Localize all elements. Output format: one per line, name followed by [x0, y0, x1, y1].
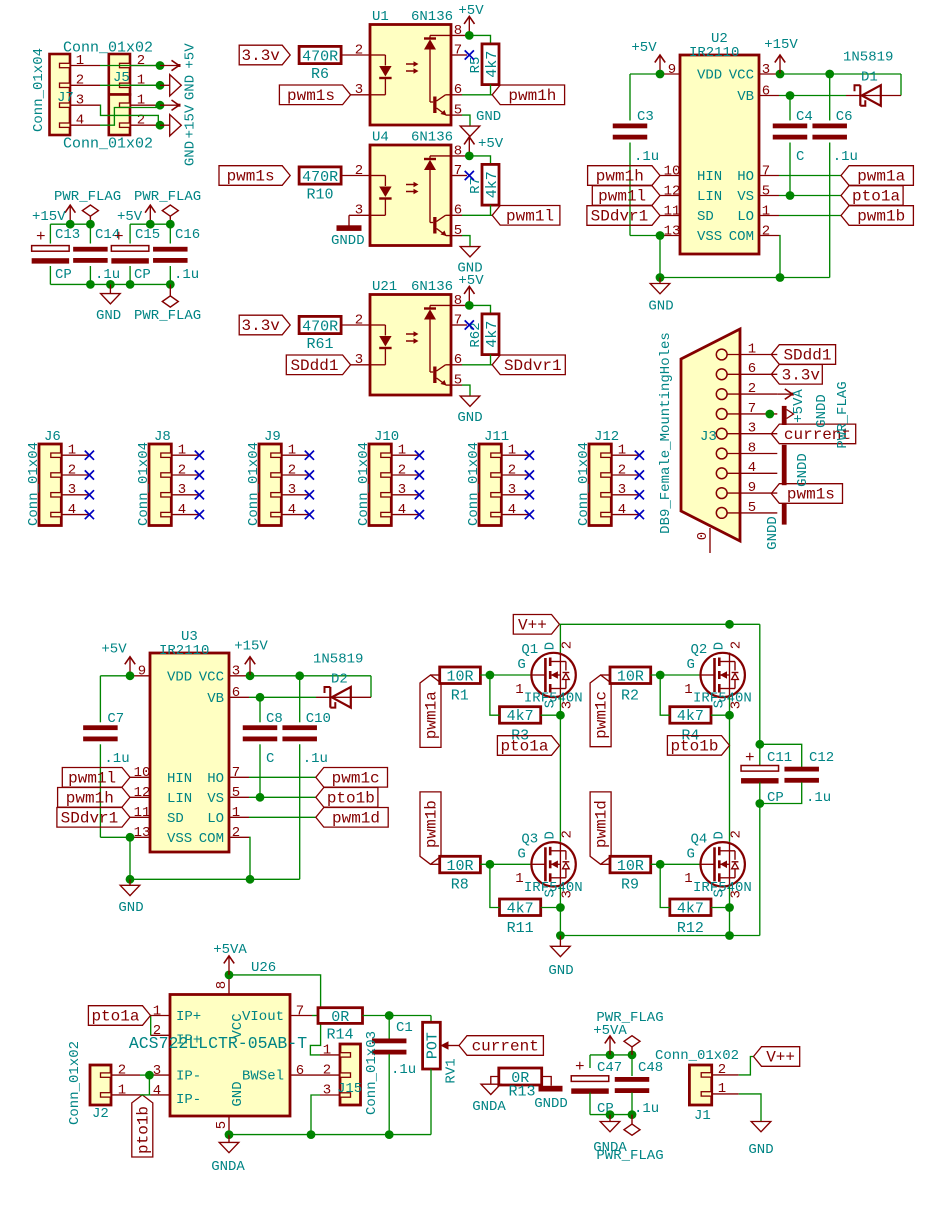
svg-text:V++: V++ — [766, 1049, 795, 1067]
wire tie pins 3-4 — [148, 1075, 150, 1095]
resistor R9 10R gate — [610, 856, 651, 873]
svg-text:7: 7 — [296, 1003, 304, 1019]
svg-text:J8: J8 — [154, 429, 171, 445]
svg-text:SDdvr1: SDdvr1 — [504, 357, 562, 375]
svg-text:3: 3 — [728, 701, 744, 709]
junction dots J5 outputs — [156, 61, 165, 70]
label tip mark at pin7 — [787, 410, 794, 419]
svg-text:Q4: Q4 — [691, 831, 708, 847]
svg-text:4: 4 — [178, 502, 186, 518]
DB9 mounting pin 0 — [709, 528, 711, 553]
svg-text:5: 5 — [454, 373, 462, 389]
wire J7.1 to +5V — [100, 65, 160, 67]
svg-text:Q3: Q3 — [521, 831, 538, 847]
power flag PWR_FLAG top — [631, 1047, 633, 1055]
wire VSS down to rail — [659, 236, 661, 278]
svg-text:J15: J15 — [337, 1081, 362, 1097]
wire pin6 to label — [462, 364, 492, 366]
wire Q3 source to rail — [559, 887, 561, 936]
COM wire down — [779, 236, 780, 278]
svg-text:pwm1l: pwm1l — [598, 188, 646, 206]
svg-text:J5: J5 — [113, 70, 130, 86]
pin6 stub — [451, 214, 462, 216]
svg-text:+5V: +5V — [458, 273, 484, 289]
capacitor C11 CP polarized — [759, 744, 761, 767]
svg-text:9: 9 — [668, 62, 676, 78]
svg-text:+5VA: +5VA — [213, 942, 247, 958]
connector J5 Conn_01x02 — [109, 54, 130, 95]
svg-text:3: 3 — [323, 1082, 331, 1098]
connector J5B Conn_01x02 — [109, 95, 130, 136]
svg-text:J1: J1 — [694, 1108, 711, 1124]
wire R to gate junction — [480, 863, 531, 865]
svg-text:pwm1s: pwm1s — [787, 486, 835, 504]
svg-text:pwm1l: pwm1l — [68, 769, 116, 787]
svg-text:+5V: +5V — [117, 209, 143, 225]
connector J7 Conn_01x04 — [50, 54, 71, 135]
svg-text:2: 2 — [559, 830, 575, 838]
DB9 pin 4 — [716, 468, 727, 479]
svg-text:J9: J9 — [264, 429, 281, 445]
svg-text:PWR_FLAG: PWR_FLAG — [54, 189, 121, 205]
wire R to gate junction — [480, 674, 531, 676]
svg-text:pto1b: pto1b — [670, 738, 718, 756]
wire J15 pin3 to GNDA rail — [311, 1095, 320, 1135]
svg-text:Q2: Q2 — [691, 642, 708, 658]
svg-text:C1: C1 — [396, 1020, 413, 1036]
svg-text:.1u: .1u — [95, 267, 120, 283]
ground GNDA U26 — [228, 1135, 230, 1143]
wire +5V group top — [130, 223, 170, 225]
junction pin8 — [465, 31, 474, 40]
capacitor C-left .1u loop — [630, 73, 660, 75]
global label pto1a input — [88, 1006, 150, 1026]
svg-text:D1: D1 — [861, 70, 878, 86]
pin3 stub to GNDD — [349, 214, 370, 216]
svg-text:2: 2 — [748, 381, 756, 397]
wire R to pin2 — [341, 175, 370, 177]
svg-text:470R: 470R — [302, 318, 338, 335]
junction VS — [256, 793, 265, 802]
wire R14 to RV1 — [363, 1015, 432, 1017]
svg-text:PWR_FLAG: PWR_FLAG — [134, 189, 201, 205]
svg-text:U21: U21 — [372, 279, 397, 295]
top wire VCC to diode — [779, 73, 901, 75]
svg-text:S: S — [542, 889, 558, 897]
svg-text:pto1a: pto1a — [91, 1008, 139, 1026]
svg-text:VB: VB — [207, 691, 224, 707]
svg-text:6: 6 — [762, 83, 770, 99]
svg-text:6: 6 — [454, 203, 462, 219]
svg-text:6: 6 — [296, 1063, 304, 1079]
svg-text:LO: LO — [207, 811, 224, 827]
svg-text:pwm1h: pwm1h — [596, 168, 644, 186]
svg-text:6N136: 6N136 — [411, 9, 453, 25]
svg-text:4k7: 4k7 — [484, 51, 501, 78]
svg-text:LIN: LIN — [167, 791, 192, 807]
svg-text:C47: C47 — [597, 1060, 622, 1076]
svg-text:4: 4 — [68, 502, 76, 518]
power +15V — [69, 206, 71, 224]
junction pin8 — [465, 152, 474, 161]
svg-text:GNDD: GNDD — [814, 394, 830, 428]
svg-text:GNDA: GNDA — [211, 1159, 245, 1175]
svg-text:9: 9 — [748, 480, 756, 496]
svg-text:8: 8 — [748, 440, 756, 456]
svg-text:IR2110: IR2110 — [689, 45, 739, 61]
svg-text:COM: COM — [729, 229, 754, 245]
pin7 VIout stub — [290, 1015, 312, 1017]
svg-text:6: 6 — [454, 352, 462, 368]
connector J9 Conn_01x04 — [259, 444, 281, 526]
wire gate junction down to 4k7 — [490, 864, 500, 907]
svg-text:GND: GND — [648, 298, 673, 314]
svg-text:G: G — [687, 846, 695, 862]
svg-text:GND: GND — [118, 900, 143, 916]
svg-text:LO: LO — [737, 209, 754, 225]
svg-text:IP+: IP+ — [176, 1032, 201, 1048]
svg-text:4: 4 — [508, 502, 516, 518]
power +15V at VCC — [776, 70, 785, 79]
svg-text:J11: J11 — [484, 429, 509, 445]
DB9 pin 7 — [716, 409, 727, 420]
svg-text:5: 5 — [454, 103, 462, 119]
svg-text:2: 2 — [355, 42, 363, 58]
svg-text:3: 3 — [762, 62, 770, 78]
svg-text:3: 3 — [232, 664, 240, 680]
svg-text:pwm1c: pwm1c — [332, 769, 380, 787]
wire 4k7 to source — [541, 907, 561, 909]
svg-text:C3: C3 — [637, 109, 654, 125]
wire V++ to C11 branch — [759, 624, 761, 744]
svg-text:D: D — [711, 831, 727, 839]
resistor R2 10R gate — [610, 667, 651, 684]
resistor R1 10R gate — [440, 667, 481, 684]
bottom rail — [560, 935, 759, 937]
svg-text:Conn_01x03: Conn_01x03 — [364, 1031, 380, 1115]
svg-text:PWR_FLAG: PWR_FLAG — [835, 381, 851, 448]
diode D1 1N5819 — [779, 95, 846, 97]
wire 4k7 to source — [541, 714, 561, 716]
global label pto1a — [497, 736, 559, 756]
svg-text:3.3v: 3.3v — [241, 317, 280, 335]
output labels — [841, 166, 913, 186]
svg-text:2: 2 — [618, 462, 626, 478]
svg-text:R10: R10 — [306, 186, 333, 203]
svg-text:1: 1 — [618, 443, 626, 459]
capacitor C48 .1u — [615, 1077, 650, 1082]
ground GND right row4 — [160, 124, 170, 126]
svg-text:2: 2 — [728, 830, 744, 838]
svg-text:1: 1 — [398, 443, 406, 459]
svg-text:GND: GND — [476, 109, 501, 125]
svg-text:4k7: 4k7 — [677, 708, 704, 725]
optocoupler U21 6N136 — [370, 295, 451, 396]
svg-text:2: 2 — [323, 1063, 331, 1079]
svg-text:.1u: .1u — [104, 751, 129, 767]
svg-text:12: 12 — [664, 183, 681, 199]
svg-text:3: 3 — [748, 421, 756, 437]
svg-text:3: 3 — [153, 1063, 161, 1079]
svg-text:3.3v: 3.3v — [241, 47, 280, 65]
svg-text:G: G — [687, 657, 695, 673]
svg-text:+: + — [36, 228, 46, 246]
svg-text:GNDD: GNDD — [331, 233, 365, 249]
svg-text:VDD: VDD — [697, 68, 722, 84]
wire J1 pin2 to V++ — [739, 1057, 754, 1075]
power flag PWR_FLAG left — [89, 216, 91, 224]
ground GNDD bar R13 — [539, 1086, 563, 1092]
pin stubs right — [229, 675, 249, 677]
svg-text:VSS: VSS — [167, 831, 192, 847]
ground GND — [129, 879, 131, 885]
svg-text:R14: R14 — [326, 1026, 353, 1043]
transistor Q2 IRF540N — [701, 653, 745, 697]
optocoupler U1 6N136 — [370, 25, 451, 126]
svg-text:2: 2 — [288, 462, 296, 478]
svg-text:+: + — [745, 749, 755, 767]
svg-text:VB: VB — [737, 89, 754, 105]
svg-text:SDdd1: SDdd1 — [290, 357, 338, 375]
svg-text:IP-: IP- — [176, 1069, 201, 1085]
svg-text:1: 1 — [323, 1042, 331, 1058]
wire Q1 drain — [559, 624, 561, 652]
svg-text:3: 3 — [559, 890, 575, 898]
pin stubs left — [660, 73, 680, 75]
svg-text:.1u: .1u — [833, 149, 858, 165]
svg-text:1: 1 — [515, 871, 523, 887]
junction VS — [786, 191, 795, 200]
wires J2 to U26 — [140, 1074, 149, 1076]
svg-text:8: 8 — [454, 143, 462, 159]
svg-text:1: 1 — [118, 1082, 126, 1098]
output labels — [316, 768, 388, 788]
svg-text:7: 7 — [232, 765, 240, 781]
diode D2 1N5819 — [249, 696, 316, 698]
svg-text:2: 2 — [232, 825, 240, 841]
svg-text:10: 10 — [664, 163, 681, 179]
svg-text:1: 1 — [288, 443, 296, 459]
svg-text:2: 2 — [398, 462, 406, 478]
svg-text:pwm1a: pwm1a — [857, 168, 905, 186]
power flag PWR_FLAG bottom — [169, 284, 171, 296]
svg-text:4k7: 4k7 — [484, 171, 501, 198]
capacitor C-mid C — [259, 697, 261, 722]
svg-text:4k7: 4k7 — [484, 321, 501, 348]
junction C11 top — [755, 740, 764, 749]
svg-text:SDdvr1: SDdvr1 — [61, 809, 119, 827]
pin8 VCC stub — [228, 975, 230, 995]
resistor R7 4k7 — [482, 164, 499, 205]
svg-text:3: 3 — [728, 890, 744, 898]
svg-text:C7: C7 — [107, 711, 124, 727]
DB9 pin 1 — [716, 349, 727, 360]
svg-text:+15V: +15V — [764, 37, 798, 53]
svg-text:C: C — [796, 149, 804, 165]
ground GND bottom — [109, 284, 111, 293]
junction VSS — [126, 833, 135, 842]
svg-text:4: 4 — [618, 502, 626, 518]
power +5V at VDD — [129, 658, 131, 676]
svg-text:pwm1b: pwm1b — [423, 800, 441, 848]
power +15V at VCC — [246, 671, 255, 680]
svg-text:IR2110: IR2110 — [159, 643, 209, 659]
ic U2 IR2110 body — [680, 55, 759, 254]
svg-text:Conn_01x04: Conn_01x04 — [136, 442, 152, 526]
svg-text:C13: C13 — [55, 227, 80, 243]
svg-text:pwm1a: pwm1a — [423, 691, 441, 739]
global label pwm1s — [279, 85, 350, 105]
svg-text:U4: U4 — [372, 130, 389, 146]
resistor R5 4k7 — [482, 44, 499, 85]
svg-text:8: 8 — [454, 293, 462, 309]
svg-text:G: G — [517, 846, 525, 862]
svg-text:pwm1d: pwm1d — [593, 800, 611, 848]
connector J12 Conn_01x04 — [589, 444, 611, 526]
svg-text:VCC: VCC — [230, 1013, 246, 1038]
svg-text:3: 3 — [288, 482, 296, 498]
svg-text:470R: 470R — [302, 169, 338, 186]
transistor Q1 IRF540N — [531, 653, 575, 697]
svg-text:R5: R5 — [468, 57, 484, 74]
svg-text:V++: V++ — [518, 616, 547, 634]
wire gate junction down to 4k7 — [490, 675, 500, 715]
svg-text:U1: U1 — [372, 9, 389, 25]
svg-text:VDD: VDD — [167, 669, 192, 685]
svg-text:Conn_01x04: Conn_01x04 — [576, 442, 592, 526]
wire VSS down to rail — [129, 837, 131, 879]
svg-text:11: 11 — [664, 203, 681, 219]
svg-text:+5V: +5V — [182, 43, 198, 69]
svg-text:Conn_01x04: Conn_01x04 — [31, 48, 47, 132]
pin3 stub — [351, 364, 370, 366]
wire pin5 to GND — [462, 115, 470, 126]
wire J7.3 to GND net — [100, 105, 160, 125]
power +5V — [468, 138, 470, 156]
resistor R10 470R — [299, 167, 341, 184]
svg-text:R1: R1 — [451, 687, 469, 704]
svg-text:5: 5 — [762, 183, 770, 199]
wire +15V group top — [50, 223, 90, 225]
svg-text:LIN: LIN — [697, 189, 722, 205]
svg-text:1: 1 — [748, 341, 756, 357]
junction VB — [786, 91, 795, 100]
DB9 pin 2 — [716, 389, 727, 400]
global label 3.3v — [239, 45, 290, 65]
svg-text:9: 9 — [138, 664, 146, 680]
connector J8 Conn_01x04 — [149, 444, 171, 526]
svg-text:5: 5 — [214, 1121, 230, 1129]
svg-text:4: 4 — [76, 113, 84, 129]
svg-text:3.3v: 3.3v — [782, 366, 821, 384]
resistor R62 4k7 — [482, 314, 499, 355]
svg-text:Conn_01x02: Conn_01x02 — [655, 1048, 739, 1064]
resistor R3 4k7 gate-source — [500, 707, 541, 724]
pin8 stub — [451, 304, 469, 306]
junction pin8 — [465, 301, 474, 310]
power +5VA — [228, 957, 230, 975]
wire 4k7 to source — [711, 714, 730, 716]
svg-text:SD: SD — [697, 209, 714, 225]
pin6 stub — [451, 94, 462, 96]
svg-text:7: 7 — [454, 312, 462, 328]
svg-text:1: 1 — [684, 871, 692, 887]
capacitor C-right .1u — [299, 676, 301, 723]
svg-text:pwm1s: pwm1s — [227, 168, 275, 186]
svg-text:CP: CP — [134, 267, 151, 283]
output wires — [249, 776, 316, 778]
svg-text:4k7: 4k7 — [677, 901, 704, 918]
ground GND — [460, 396, 480, 406]
svg-text:HIN: HIN — [167, 771, 192, 787]
svg-text:1: 1 — [718, 1081, 726, 1097]
global label pto1b hbridge — [667, 736, 729, 756]
svg-text:3: 3 — [355, 203, 363, 219]
svg-text:pto1b: pto1b — [327, 789, 375, 807]
wire to 4k7 top — [469, 305, 490, 314]
resistor R14 0R — [312, 1015, 318, 1017]
svg-text:2: 2 — [355, 163, 363, 179]
connector J1 Conn_01x02 — [689, 1065, 711, 1105]
svg-text:C16: C16 — [175, 227, 200, 243]
bottom rail — [660, 277, 830, 279]
ground GND — [659, 278, 661, 284]
svg-text:2: 2 — [118, 1063, 126, 1079]
svg-text:3: 3 — [618, 482, 626, 498]
svg-text:3: 3 — [68, 482, 76, 498]
svg-text:2: 2 — [559, 641, 575, 649]
svg-text:+5V: +5V — [631, 40, 657, 56]
GNDA rail — [229, 1134, 431, 1136]
global label SDdvr1 — [492, 355, 565, 375]
capacitor C-left .1u loop — [100, 675, 130, 677]
svg-text:pto1a: pto1a — [500, 738, 548, 756]
svg-text:VS: VS — [737, 189, 754, 205]
pin3 stub — [351, 94, 370, 96]
svg-text:2: 2 — [68, 462, 76, 478]
wire bottom rail caps — [49, 266, 51, 284]
pin5 stub — [451, 235, 462, 237]
svg-text:Conn_01x02: Conn_01x02 — [63, 39, 153, 56]
svg-text:10R: 10R — [617, 858, 644, 875]
svg-text:+5V: +5V — [101, 642, 127, 658]
power flag PWR_FLAG bottom2 — [631, 1115, 633, 1124]
svg-text:7: 7 — [762, 163, 770, 179]
DB9 pin 6 — [716, 369, 727, 380]
global label SDdd1 — [286, 355, 350, 375]
svg-text:10R: 10R — [447, 669, 474, 686]
svg-text:.1u: .1u — [806, 790, 831, 806]
svg-text:GND: GND — [548, 963, 573, 979]
global label current at RV1 — [459, 1036, 543, 1056]
COM wire down — [249, 837, 250, 879]
wire +5VA to J15 pin1 — [229, 975, 321, 1055]
capacitor C13 CP polarized — [32, 246, 70, 252]
global label pwm1l — [492, 206, 560, 226]
svg-text:IP-: IP- — [176, 1092, 201, 1108]
svg-text:Conn_01x02: Conn_01x02 — [67, 1041, 83, 1125]
ground GND — [460, 247, 480, 257]
svg-text:4: 4 — [398, 502, 406, 518]
svg-text:pwm1d: pwm1d — [332, 809, 380, 827]
svg-text:PWR_FLAG: PWR_FLAG — [134, 308, 201, 324]
wire 4k7 to source — [711, 907, 730, 909]
capacitor C-mid C — [789, 96, 791, 121]
svg-text:12: 12 — [134, 785, 151, 801]
svg-text:U26: U26 — [251, 960, 276, 976]
svg-text:J12: J12 — [594, 429, 619, 445]
svg-text:13: 13 — [664, 223, 681, 239]
